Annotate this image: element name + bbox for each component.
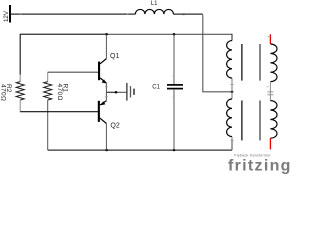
svg-text:R1: R1 [62,84,69,93]
svg-text:Q1: Q1 [110,53,119,60]
svg-text:Q2: Q2 [110,123,119,130]
svg-text:C1: C1 [152,85,160,91]
svg-text:fritzing: fritzing [228,157,290,174]
svg-text:L1: L1 [151,1,158,7]
svg-text:470Ω: 470Ω [0,84,7,101]
svg-text:12V: 12V [3,10,10,22]
